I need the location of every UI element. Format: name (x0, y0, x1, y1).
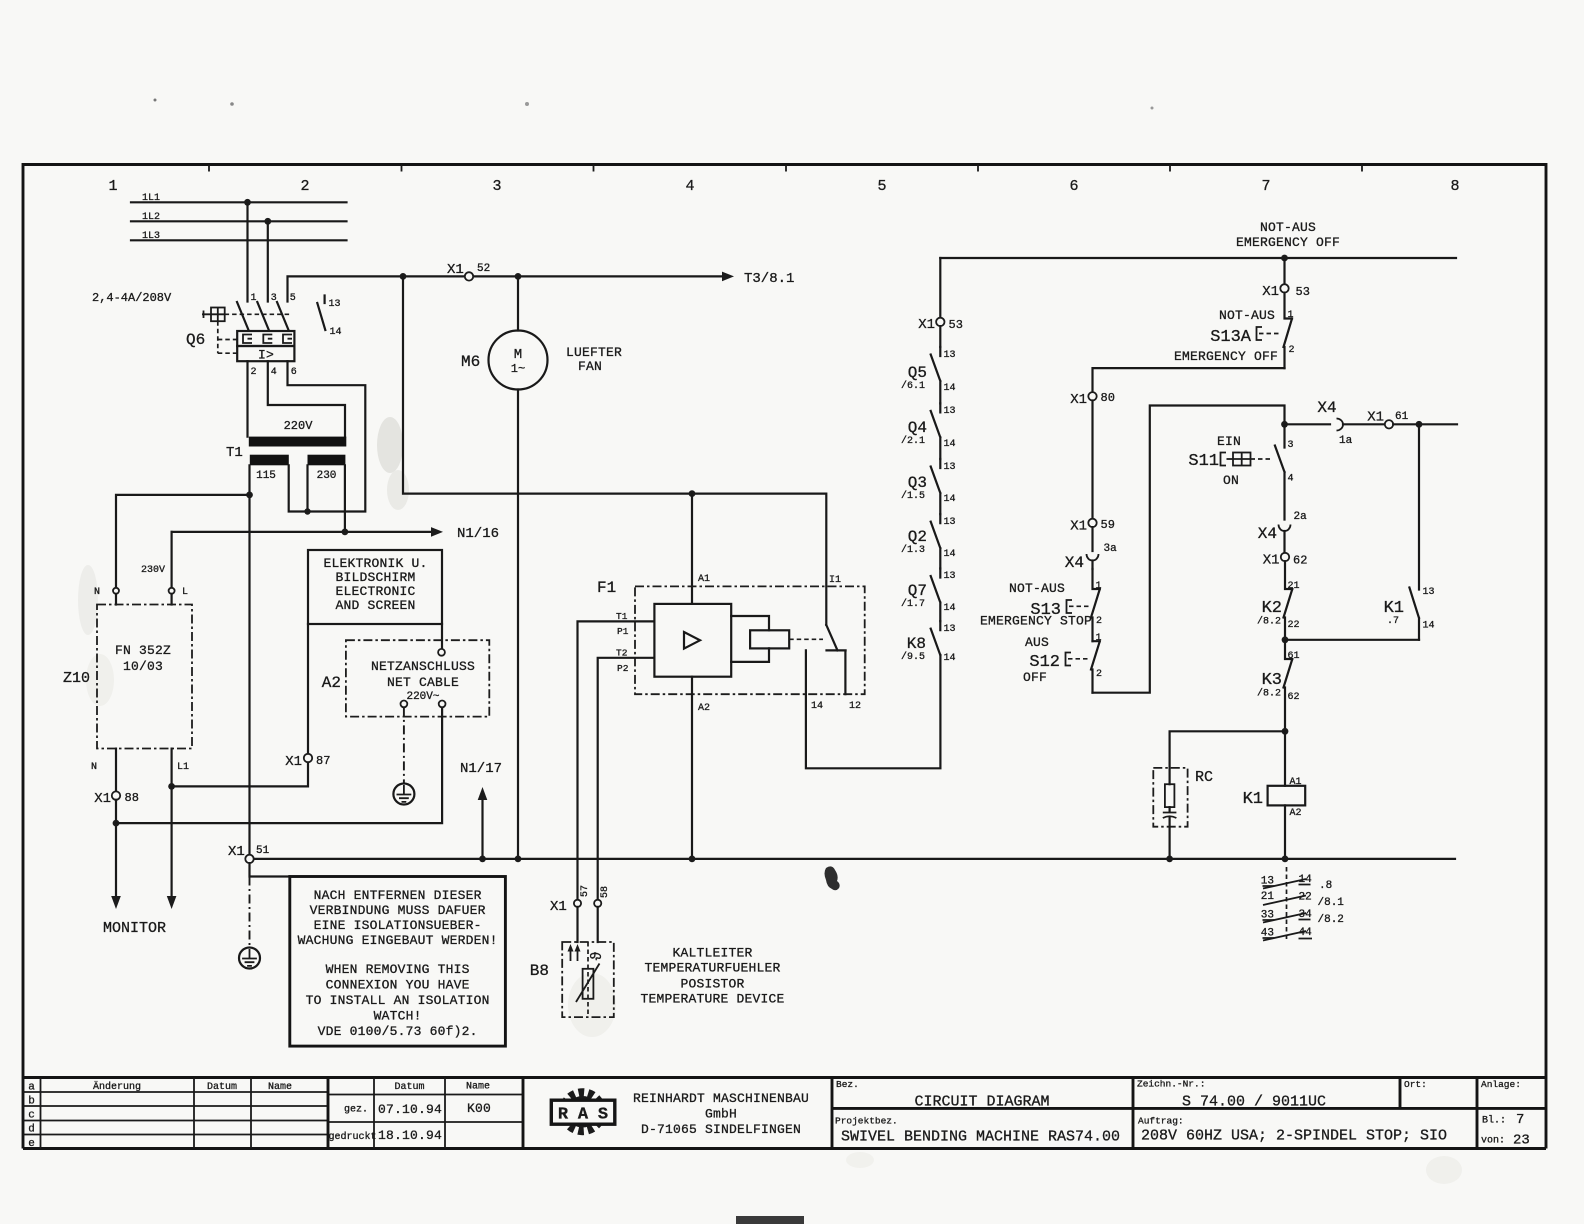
svg-text:A1: A1 (698, 574, 710, 585)
company name (633, 1091, 809, 1137)
node secondary tap 230 left (304, 508, 310, 514)
connector X4 1a (1285, 399, 1386, 447)
svg-text:115: 115 (256, 470, 276, 482)
node junction 1L2 to Q6 pin3 (264, 218, 271, 225)
svg-text:4: 4 (1288, 474, 1294, 485)
contact Q2 (901, 514, 956, 568)
svg-text:X1: X1 (918, 317, 935, 333)
svg-text:22: 22 (1288, 620, 1300, 631)
svg-text:AUS: AUS (1025, 635, 1049, 650)
svg-text:10/03: 10/03 (123, 659, 163, 674)
svg-text:14: 14 (944, 383, 956, 394)
svg-text:NOT-AUS: NOT-AUS (1260, 220, 1316, 235)
wire S12 loop up to S11 branch (1093, 406, 1285, 693)
svg-text:14: 14 (944, 494, 956, 505)
wire X1:51 earth dash-dot (249, 877, 251, 948)
title block (23, 1078, 1546, 1151)
svg-text:L: L (182, 587, 188, 598)
node N1/17 on bus (479, 856, 486, 863)
arrow monitor L1 (167, 896, 177, 909)
svg-text:/8.1: /8.1 (1318, 897, 1345, 909)
contact K3 61/62 (1257, 640, 1300, 732)
svg-text:51: 51 (256, 845, 270, 857)
svg-text:K3: K3 (1262, 671, 1282, 690)
contact Q7 (901, 569, 956, 622)
svg-text:.7: .7 (1387, 616, 1399, 627)
svg-text:1a: 1a (1339, 435, 1353, 447)
svg-text:Anlage:: Anlage: (1481, 1079, 1521, 1090)
svg-text:b: b (28, 1096, 35, 1108)
emergency switch S13 (980, 569, 1102, 641)
svg-text:2: 2 (1289, 345, 1295, 356)
svg-text:CIRCUIT DIAGRAM: CIRCUIT DIAGRAM (914, 1094, 1049, 1111)
svg-text:EMERGENCY OFF: EMERGENCY OFF (1236, 235, 1340, 250)
svg-text:X1: X1 (94, 791, 111, 807)
svg-text:CONNEXION YOU HAVE: CONNEXION YOU HAVE (326, 978, 470, 993)
svg-text:N: N (94, 587, 100, 598)
wire F1 A1 (691, 494, 693, 604)
wire X1:52 branch down and across to F1 (403, 276, 826, 625)
svg-text:gedruckt: gedruckt (329, 1131, 377, 1143)
svg-text:3: 3 (271, 293, 277, 304)
svg-text:F1: F1 (597, 579, 616, 597)
svg-text:14: 14 (811, 701, 823, 712)
terminal X1 51 (245, 855, 253, 863)
node u-line junction (246, 492, 253, 499)
svg-text:62: 62 (1288, 692, 1300, 703)
contact K8 (901, 621, 956, 664)
svg-text:POSISTOR: POSISTOR (680, 977, 744, 992)
svg-text:1: 1 (1096, 581, 1102, 592)
svg-text:ELECTRONIC: ELECTRONIC (335, 584, 415, 599)
svg-text:1: 1 (251, 293, 257, 304)
svg-text:14: 14 (944, 439, 956, 450)
wire junction to RC (1170, 731, 1285, 768)
svg-text:ON: ON (1223, 473, 1239, 488)
terminal X1 61 (1385, 420, 1393, 428)
svg-text:230: 230 (317, 470, 337, 482)
svg-text:von:: von: (1481, 1136, 1505, 1147)
svg-text:Bez.: Bez. (836, 1079, 859, 1090)
svg-text:gez.: gez. (344, 1105, 368, 1116)
svg-text:X1: X1 (1070, 392, 1087, 408)
svg-text:WACHUNG EINGEBAUT WERDEN!: WACHUNG EINGEBAUT WERDEN! (298, 933, 498, 948)
svg-text:K00: K00 (467, 1101, 491, 1116)
wire X1:51 stub to warning link (250, 863, 290, 876)
svg-text:/6.1: /6.1 (901, 380, 925, 392)
ground earth A2 (393, 784, 414, 805)
svg-text:REINHARDT MASCHINENBAU: REINHARDT MASCHINENBAU (633, 1091, 809, 1106)
svg-text:.8: .8 (1319, 880, 1332, 892)
switch S12 AUS/OFF (1023, 633, 1102, 693)
svg-text:L1: L1 (177, 762, 189, 773)
svg-text:X4: X4 (1317, 399, 1336, 417)
terminal X1 80 (1088, 392, 1096, 400)
contact cross-reference K1 (1261, 867, 1345, 942)
svg-text:Q4: Q4 (908, 419, 927, 437)
wire 1L2 to Q6 pin 3 (267, 221, 269, 301)
transformer T1 (226, 419, 346, 482)
svg-text:2: 2 (1096, 669, 1102, 680)
terminal X1 53 right (1280, 284, 1288, 292)
wire junction to K1 contact (1285, 639, 1419, 641)
arrow monitor N (111, 896, 121, 909)
F1 output coil (731, 616, 769, 662)
node RC on bus (1166, 856, 1173, 863)
motor M6 (461, 276, 622, 389)
wire L1 node to elektronik box (172, 624, 308, 786)
svg-text:62: 62 (1293, 554, 1307, 568)
wire T1 115 left lead down to X1:51 (248, 465, 250, 855)
svg-text:AND SCREEN: AND SCREEN (335, 598, 415, 613)
svg-text:14: 14 (1423, 621, 1435, 632)
svg-text:WHEN REMOVING THIS: WHEN REMOVING THIS (326, 962, 470, 977)
device A2 net cable (322, 640, 490, 716)
svg-text:M: M (514, 347, 522, 363)
designation cells (835, 1079, 1530, 1149)
svg-text:X1: X1 (1263, 553, 1280, 569)
node X1:52 line to M6 branch (515, 273, 522, 280)
svg-text:K2: K2 (1262, 599, 1282, 618)
svg-text:X1: X1 (228, 844, 245, 860)
svg-text:4: 4 (271, 367, 277, 378)
svg-text:A: A (578, 1106, 589, 1125)
svg-text:220V: 220V (284, 419, 314, 433)
svg-text:VERBINDUNG MUSS DAFUER: VERBINDUNG MUSS DAFUER (310, 903, 486, 918)
svg-text:ϑ: ϑ (589, 951, 606, 960)
svg-text:TEMPERATURE DEVICE: TEMPERATURE DEVICE (640, 992, 784, 1007)
sensor B8 posistor (530, 942, 614, 1017)
svg-text:K1: K1 (1243, 790, 1263, 809)
wire X1:80 to X1:59 (1091, 401, 1093, 519)
svg-text:3a: 3a (1104, 543, 1118, 555)
svg-text:a: a (28, 1082, 35, 1094)
svg-text:c: c (28, 1110, 35, 1122)
svg-text:S: S (598, 1106, 608, 1125)
svg-text:A2: A2 (322, 674, 341, 692)
svg-text:57: 57 (580, 885, 591, 897)
wire 1L2 phase bus (131, 220, 347, 222)
svg-text:220V~: 220V~ (406, 691, 439, 703)
svg-text:5: 5 (877, 178, 886, 195)
svg-text:N1/17: N1/17 (460, 761, 502, 777)
wire T1 230 right lead (344, 465, 346, 532)
F1 mechanical link dashed (789, 638, 823, 640)
svg-text:21: 21 (1288, 581, 1300, 592)
contact Q5 (901, 347, 956, 403)
wire Q6 pin 5 up to X1:52 line (288, 276, 723, 301)
node X1:52 line to F1 branch (400, 273, 407, 280)
svg-text:53: 53 (1296, 285, 1310, 299)
svg-text:NACH ENTFERNEN DIESER: NACH ENTFERNEN DIESER (314, 888, 482, 903)
svg-text:/1.7: /1.7 (901, 598, 925, 610)
warning note box (290, 877, 506, 1047)
bottom bus X1:51 (254, 858, 1455, 860)
svg-text:59: 59 (1101, 518, 1115, 532)
svg-text:EINE ISOLATIONSUEBER-: EINE ISOLATIONSUEBER- (314, 918, 482, 933)
svg-text:61: 61 (1288, 651, 1300, 662)
svg-text:12: 12 (849, 701, 861, 712)
svg-text:KALTLEITER: KALTLEITER (672, 946, 752, 961)
terminal Z10 N top (113, 588, 119, 594)
wire X1:57 to B8 (576, 907, 578, 942)
svg-text:A2: A2 (698, 703, 710, 714)
node K3/RC junction (1282, 728, 1289, 735)
svg-text:88: 88 (125, 791, 139, 805)
RAS logo (551, 1093, 615, 1131)
svg-text:1~: 1~ (511, 362, 525, 376)
svg-text:53: 53 (949, 318, 963, 332)
terminal X1 62 (1281, 553, 1289, 561)
svg-text:K8: K8 (907, 635, 926, 653)
svg-text:S11: S11 (1188, 452, 1219, 471)
svg-text:EIN: EIN (1217, 434, 1241, 449)
svg-text:A2: A2 (1290, 808, 1302, 819)
svg-text:NET CABLE: NET CABLE (387, 675, 459, 690)
svg-text:87: 87 (316, 754, 330, 768)
svg-text:80: 80 (1101, 391, 1115, 405)
svg-text:Z10: Z10 (63, 670, 90, 687)
node junction 1L1 to Q6 pin1 (244, 199, 251, 206)
svg-text:/2.1: /2.1 (901, 435, 925, 447)
svg-text:X1: X1 (1367, 410, 1384, 426)
wire Q6 pin 6 to T1 secondary tap (288, 361, 366, 511)
contact Q3 (901, 459, 956, 514)
node F1 A2 on bus (689, 856, 696, 863)
svg-text:D-71065 SINDELFINGEN: D-71065 SINDELFINGEN (641, 1122, 801, 1137)
F1 pin T1/P1 wire (578, 621, 655, 899)
wire X1:53 to Q5 (939, 326, 941, 347)
svg-text:2a: 2a (1294, 511, 1308, 523)
F1 pin T2/P2 wire (598, 658, 655, 899)
arrow N1/17 (460, 761, 502, 859)
svg-text:Q5: Q5 (908, 364, 927, 382)
svg-text:T1: T1 (226, 445, 243, 461)
contact K1 13/14 (1384, 424, 1435, 640)
svg-text:Auftrag:: Auftrag: (1138, 1116, 1184, 1127)
svg-text:5: 5 (290, 293, 296, 304)
svg-text:21: 21 (1261, 891, 1275, 903)
emergency switch S13A (1174, 293, 1295, 369)
svg-text:2: 2 (1096, 616, 1102, 627)
svg-text:230V: 230V (141, 565, 165, 576)
wire X1:61 to K1 branch (1393, 423, 1457, 425)
svg-text:13: 13 (1423, 587, 1435, 598)
svg-text:ELEKTRONIK U.: ELEKTRONIK U. (323, 556, 427, 571)
svg-text:3: 3 (492, 178, 501, 195)
svg-text:3: 3 (1288, 440, 1294, 451)
svg-text:MONITOR: MONITOR (103, 920, 166, 937)
svg-text:23: 23 (1513, 1133, 1530, 1149)
svg-text:I1: I1 (829, 575, 841, 586)
node L1 to elektronik line (168, 783, 175, 790)
drawing frame border (23, 165, 1546, 1149)
svg-text:Name: Name (466, 1082, 490, 1093)
svg-text:4: 4 (685, 178, 694, 195)
svg-text:Name: Name (268, 1082, 292, 1093)
svg-text:FN 352Z: FN 352Z (115, 643, 171, 658)
svg-text:Datum: Datum (207, 1082, 237, 1093)
svg-text:Q3: Q3 (908, 474, 927, 492)
wire Q6 pin 4 to T1 primary right (268, 361, 345, 436)
svg-text:/8.2: /8.2 (1318, 914, 1344, 926)
wire X1:88 node to A2 right terminal (116, 707, 442, 823)
svg-text:Datum: Datum (394, 1082, 424, 1093)
svg-text:/1.3: /1.3 (901, 544, 925, 556)
svg-text:13: 13 (944, 406, 956, 417)
svg-text:P2: P2 (617, 663, 629, 674)
wire 1L1 to Q6 pin 1 (246, 202, 248, 301)
svg-text:7: 7 (1261, 178, 1270, 195)
svg-text:N: N (91, 762, 97, 773)
svg-text:N1/16: N1/16 (457, 526, 499, 542)
svg-text:X1: X1 (1262, 284, 1279, 300)
wire Z10 L lead up (171, 532, 173, 588)
svg-text:14: 14 (944, 653, 956, 664)
svg-text:X1: X1 (447, 262, 464, 278)
terminal X1 88 (112, 791, 120, 799)
svg-text:Zeichn.-Nr.:: Zeichn.-Nr.: (1137, 1079, 1205, 1090)
connector X4 2a (1258, 511, 1307, 553)
svg-text:T2: T2 (616, 648, 628, 659)
svg-text:Projektbez.: Projektbez. (835, 1116, 898, 1127)
svg-text:WATCH!: WATCH! (374, 1009, 422, 1024)
svg-text:T1: T1 (616, 611, 628, 622)
svg-text:I>: I> (258, 348, 274, 363)
svg-text:P1: P1 (617, 626, 629, 637)
svg-text:208V 60HZ USA; 2-SPINDEL STOP;: 208V 60HZ USA; 2-SPINDEL STOP; SIO (1141, 1128, 1447, 1145)
svg-text:13: 13 (944, 350, 956, 361)
svg-text:13: 13 (944, 462, 956, 473)
filter Z10 (63, 594, 192, 773)
column ticks (209, 165, 1362, 172)
svg-text:Ort:: Ort: (1404, 1079, 1427, 1090)
svg-text:Bl.:: Bl.: (1482, 1115, 1506, 1127)
svg-text:2: 2 (300, 178, 309, 195)
wire S13A to X1:80 (1093, 368, 1285, 392)
svg-text:NOT-AUS: NOT-AUS (1009, 581, 1065, 596)
svg-text:VDE 0100/5.73 60f)2.: VDE 0100/5.73 60f)2. (318, 1024, 478, 1039)
svg-text:Q7: Q7 (908, 582, 927, 600)
suppressor RC (1153, 768, 1213, 855)
box ELEKTRONIK note (308, 550, 442, 624)
svg-text:61: 61 (1395, 411, 1409, 423)
node K1 coil on bus (1282, 856, 1289, 863)
svg-text:NETZANSCHLUSS: NETZANSCHLUSS (371, 659, 475, 674)
terminal X1 59 (1088, 519, 1096, 527)
terminal X1 52 (465, 272, 473, 280)
wire M6 down to X1:51 bus (517, 390, 519, 859)
svg-text:14: 14 (944, 603, 956, 614)
connector X4 3a (1065, 527, 1117, 572)
terminal X1 57 (574, 900, 581, 907)
wire X1:88 down to monitor arrow (115, 800, 117, 898)
svg-text:LUEFTER: LUEFTER (566, 345, 622, 360)
wire elektronik box to A2 top terminal (441, 624, 443, 649)
svg-text:13: 13 (944, 517, 956, 528)
svg-text:S13A: S13A (1210, 328, 1252, 347)
svg-text:EMERGENCY OFF: EMERGENCY OFF (1174, 349, 1278, 364)
svg-text:1L1: 1L1 (142, 193, 160, 204)
svg-text:OFF: OFF (1023, 670, 1047, 685)
svg-text:S 74.00 / 9011UC: S 74.00 / 9011UC (1182, 1094, 1326, 1111)
svg-text:Q6: Q6 (186, 331, 205, 349)
contact Q4 (901, 403, 956, 459)
svg-text:/1.5: /1.5 (901, 490, 925, 502)
svg-text:1L2: 1L2 (142, 212, 160, 223)
wire 1L1 phase bus (131, 201, 347, 203)
svg-text:52: 52 (477, 263, 490, 275)
terminal X1 58 (594, 900, 601, 907)
wire A2 PE lead (403, 707, 405, 783)
svg-text:Änderung: Änderung (93, 1080, 141, 1093)
svg-text:X1: X1 (550, 899, 567, 915)
contact K2 21/22 (1257, 561, 1300, 640)
svg-text:13: 13 (944, 571, 956, 582)
svg-text:07.10.94: 07.10.94 (378, 1102, 442, 1117)
terminal Z10 L top (169, 588, 175, 594)
svg-text:TO INSTALL AN ISOLATION: TO INSTALL AN ISOLATION (306, 993, 490, 1008)
terminal X1 53 chain (936, 318, 944, 326)
svg-text:BILDSCHIRM: BILDSCHIRM (335, 570, 415, 585)
temperature monitor F1 (578, 574, 941, 899)
wire 1L3 phase bus (131, 239, 347, 241)
wire N line with arrow N1/16 (172, 531, 431, 533)
svg-text:6: 6 (291, 367, 297, 378)
svg-text:TEMPERATURFUEHLER: TEMPERATURFUEHLER (644, 961, 780, 976)
svg-text:NOT-AUS: NOT-AUS (1219, 308, 1275, 323)
svg-text:14: 14 (944, 549, 956, 560)
wire F1 A2 to bus (691, 677, 693, 859)
top bus NOT-AUS EMERGENCY OFF (940, 257, 1456, 259)
ground earth X1:51 (239, 948, 260, 969)
F1 changeover contact I1/12/14 (806, 625, 941, 768)
node N line junction (342, 529, 349, 536)
svg-text:FAN: FAN (578, 359, 602, 374)
svg-text:2,4-4A/208V: 2,4-4A/208V (92, 291, 172, 305)
node K2/K1 junction (1282, 636, 1289, 643)
svg-text:e: e (28, 1138, 35, 1150)
svg-text:/9.5: /9.5 (901, 651, 925, 663)
svg-text:d: d (28, 1124, 35, 1136)
svg-text:Q2: Q2 (908, 528, 927, 546)
svg-text:M6: M6 (461, 353, 480, 371)
svg-text:SWIVEL BENDING MACHINE RAS74.0: SWIVEL BENDING MACHINE RAS74.00 (841, 1129, 1120, 1146)
svg-text:1: 1 (108, 178, 117, 195)
wire left to Z10 N (116, 495, 250, 588)
wire Z10 L1 lead down to monitor arrow (171, 749, 173, 898)
svg-text:8: 8 (1450, 178, 1459, 195)
svg-text:1: 1 (1288, 310, 1294, 321)
svg-text:EMERGENCY STOP: EMERGENCY STOP (980, 614, 1092, 629)
svg-text:1: 1 (1096, 633, 1102, 644)
svg-text:X1: X1 (285, 754, 302, 770)
coil K1 (1243, 731, 1306, 855)
node S11 branch (1281, 421, 1288, 428)
arrow to T3/8.1 (722, 272, 734, 282)
svg-text:/8.2: /8.2 (1257, 688, 1281, 700)
svg-text:18.10.94: 18.10.94 (378, 1128, 442, 1143)
svg-text:14: 14 (330, 327, 342, 338)
svg-text:B8: B8 (530, 962, 549, 980)
svg-text:7: 7 (1516, 1112, 1524, 1128)
svg-text:13: 13 (944, 624, 956, 635)
svg-text:X4: X4 (1258, 525, 1277, 543)
node K1 contact branch (1416, 421, 1423, 428)
svg-text:GmbH: GmbH (705, 1107, 737, 1122)
wire top bus drop to X1:53 (939, 258, 941, 318)
svg-text:R: R (558, 1106, 569, 1125)
